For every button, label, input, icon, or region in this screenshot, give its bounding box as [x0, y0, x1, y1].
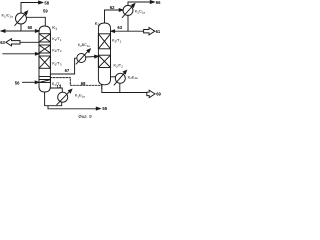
wire 63 reflux right [113, 15, 144, 31]
svg-text:K1E1a: K1E1a [75, 92, 85, 98]
condenser K1/C1a [15, 11, 28, 26]
svg-text:K1/C1a: K1/C1a [2, 13, 14, 19]
dashed line 68 [50, 78, 101, 89]
arrowhead into K2 [111, 30, 115, 33]
wire 13 reboiler return [50, 88, 62, 92]
svg-text:K2BC1a: K2BC1a [78, 43, 90, 48]
svg-text:67: 67 [65, 68, 70, 73]
svg-text:K2C1a: K2C1a [135, 9, 146, 15]
wire exchanger to K2 feed [86, 56, 96, 59]
svg-text:K2/T1: K2/T1 [112, 38, 122, 44]
svg-text:61: 61 [156, 29, 161, 34]
svg-text:63: 63 [0, 40, 5, 45]
wire 62 vapor to condenser [105, 10, 121, 23]
wire feed at 53.8 [3, 53, 37, 55]
packing section K1/T1 [39, 34, 50, 42]
open arrow 61 [144, 28, 155, 35]
svg-text:68: 68 [81, 81, 86, 86]
svg-text:62: 62 [110, 5, 115, 10]
reboiler K1E1a [57, 89, 72, 104]
packing section K1/T2 [39, 45, 50, 53]
wire 66 out [128, 2, 151, 5]
tray section K1/T4 [39, 77, 50, 83]
svg-text:56: 56 [15, 80, 20, 85]
wire feed 56 [23, 81, 37, 83]
arrowhead into column [35, 30, 39, 33]
wire bottoms loop K1 [45, 92, 62, 106]
svg-text:59: 59 [43, 9, 48, 14]
wire bottoms K2 to arrow 69 [102, 83, 147, 92]
column K2 vessel [98, 23, 110, 85]
svg-text:63: 63 [117, 25, 122, 30]
wire 67 to exchanger [50, 58, 76, 74]
wire 60 reflux / distillate [4, 24, 39, 31]
column K1 vessel [39, 26, 50, 92]
wire side draw 63 [20, 41, 39, 43]
wire K2 wall to reboiler [111, 76, 116, 78]
reboiler K2E1a [114, 70, 126, 85]
arrowhead left distillate [1, 30, 5, 33]
svg-text:K1/T3: K1/T3 [52, 61, 62, 67]
wire vapor 58 out [21, 3, 39, 14]
svg-text:K1: K1 [52, 25, 57, 31]
svg-text:K2E1a: K2E1a [128, 74, 138, 80]
svg-text:K2/T2: K2/T2 [114, 63, 124, 69]
svg-text:55: 55 [102, 106, 107, 111]
svg-text:58: 58 [44, 0, 49, 5]
packing section K2/T1 [98, 34, 110, 49]
svg-text:K2: K2 [95, 21, 100, 27]
wire bottoms 55 [48, 106, 97, 109]
svg-text:66: 66 [156, 0, 161, 5]
svg-text:K1/T1: K1/T1 [52, 36, 62, 42]
exchanger K2BC1a [76, 49, 90, 64]
packing section K2/T2 [98, 55, 110, 67]
svg-text:69: 69 [156, 92, 161, 97]
svg-text:13: 13 [56, 84, 61, 89]
svg-text:Фиг. 9: Фиг. 9 [78, 114, 92, 119]
packing section K1/T3 [39, 56, 50, 68]
condenser K2C1a [122, 4, 135, 18]
svg-text:60: 60 [28, 25, 33, 30]
wire 59 column top to condenser [27, 17, 46, 26]
open arrow 69 [147, 90, 155, 97]
open arrow 63 left [6, 39, 20, 46]
svg-text:K1/T2: K1/T2 [52, 47, 62, 53]
